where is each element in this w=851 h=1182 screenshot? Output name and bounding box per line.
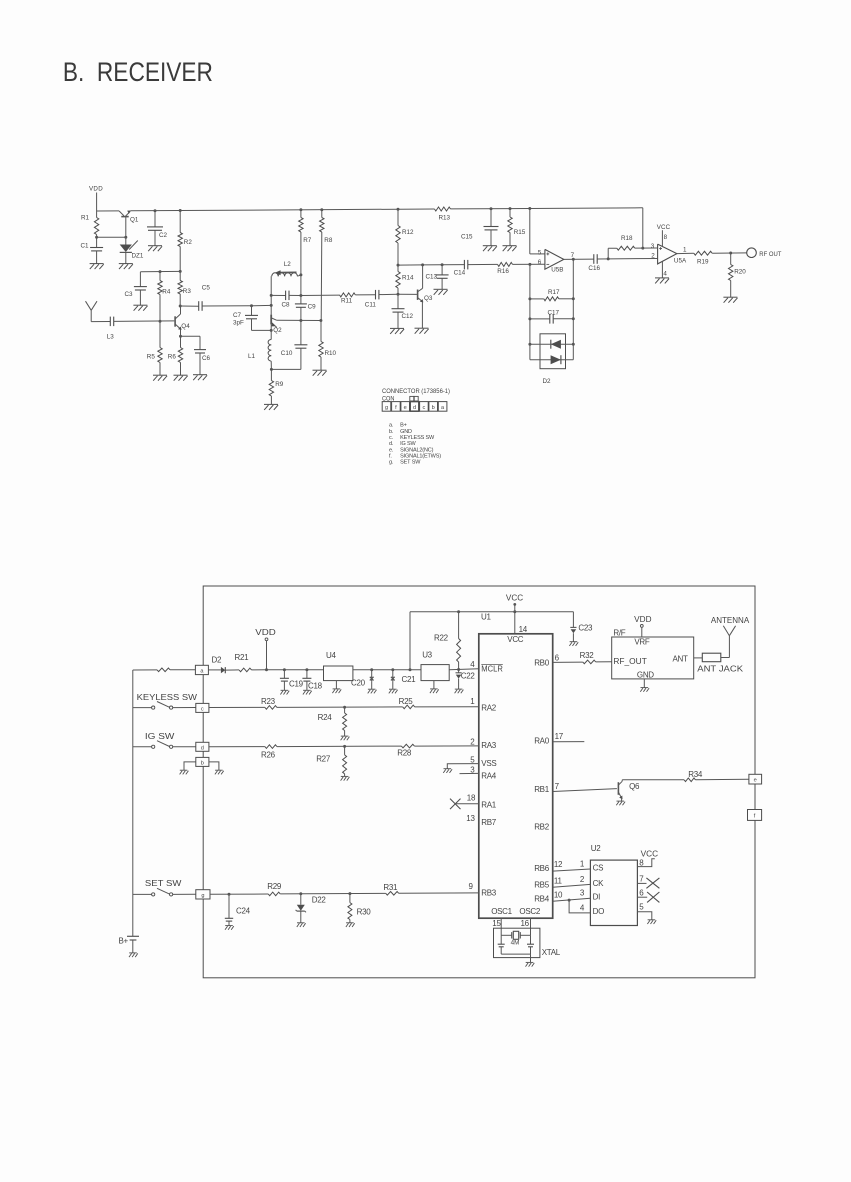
svg-text:R31: R31 xyxy=(383,883,398,892)
wire U2 pin8 to VCC xyxy=(637,859,654,867)
wire C7 node to Q2 xyxy=(252,304,272,306)
svg-text:C6: C6 xyxy=(202,355,211,362)
svg-text:C21: C21 xyxy=(402,675,417,684)
resistor R3 xyxy=(178,271,182,306)
node R30 junction xyxy=(348,892,351,895)
connector pin boxes g-a xyxy=(382,402,447,412)
svg-text:6: 6 xyxy=(639,888,644,897)
node Q2 emitter junction xyxy=(270,329,273,332)
wire box b right hook xyxy=(209,762,219,770)
ground under C2 xyxy=(148,246,162,252)
svg-text:R27: R27 xyxy=(316,754,331,763)
svg-text:f: f xyxy=(395,405,397,411)
wire feedback left rail xyxy=(529,264,531,359)
connector box g xyxy=(196,890,210,899)
svg-text:8: 8 xyxy=(639,858,644,867)
antenna symbol (bottom) xyxy=(723,626,735,636)
svg-text:C7: C7 xyxy=(233,312,242,319)
capacitor XTAL right load xyxy=(527,935,534,954)
wire osc line Q3 to C13 xyxy=(423,264,443,266)
ground under R5 xyxy=(153,375,167,381)
label R9 xyxy=(275,381,284,388)
svg-text:R22: R22 xyxy=(434,633,449,642)
svg-text:C20: C20 xyxy=(351,679,366,688)
svg-text:g: g xyxy=(201,893,204,899)
capacitor C17 xyxy=(550,314,553,324)
svg-text:C13: C13 xyxy=(426,274,438,281)
ground under R30 xyxy=(346,923,355,927)
svg-text:KEYLESS SW: KEYLESS SW xyxy=(400,435,435,441)
node R22-C22 junction xyxy=(457,668,460,671)
svg-text:R7: R7 xyxy=(303,237,312,244)
label U5A pin 1 xyxy=(683,246,687,253)
label DO inside xyxy=(593,907,604,916)
ground U2 pin5 xyxy=(647,920,656,924)
resistor R12 xyxy=(396,209,400,265)
capacitor C3 xyxy=(134,272,147,305)
label D22 xyxy=(312,895,327,904)
svg-text:b: b xyxy=(201,761,204,767)
svg-text:IG SW: IG SW xyxy=(400,441,416,447)
ground under C24 xyxy=(225,926,234,930)
resistor R2 xyxy=(178,211,182,272)
svg-text:14: 14 xyxy=(519,625,528,634)
wire RA3 row right xyxy=(414,745,478,747)
label C7 value 3pF xyxy=(233,320,244,327)
wire C11 to R14 node xyxy=(379,293,398,295)
wire RB5 to CK xyxy=(553,884,591,887)
wire C17 row left xyxy=(530,318,550,320)
svg-text:D22: D22 xyxy=(312,895,327,904)
svg-text:B. RECEIVER: B. RECEIVER xyxy=(63,57,213,87)
ground under R9 xyxy=(264,404,278,410)
label RF_OUT inside xyxy=(613,657,647,666)
wire emitter to C6 xyxy=(181,335,201,337)
label R7 xyxy=(303,237,312,244)
regulator U4 xyxy=(324,666,353,689)
capacitor C13 xyxy=(436,265,449,290)
svg-text:R18: R18 xyxy=(621,235,633,242)
label U1 pin 13 xyxy=(466,814,475,823)
node R24 junction xyxy=(343,706,346,709)
svg-text:a: a xyxy=(441,405,445,411)
node rail-C2 junction xyxy=(154,209,157,212)
label B+ xyxy=(119,937,129,946)
capacitor C18 xyxy=(302,670,311,691)
resistor R21 xyxy=(234,668,267,672)
node left rail D2 junction xyxy=(528,343,531,346)
capacitor C1 xyxy=(90,237,103,263)
svg-text:KEYLESS SW: KEYLESS SW xyxy=(137,693,198,702)
label R8 xyxy=(324,237,333,244)
wire osc line R12 to Q3 xyxy=(398,264,423,266)
label U5A pin 2 xyxy=(651,252,655,259)
label C24 xyxy=(236,906,251,915)
wire U5B output xyxy=(564,258,594,260)
label R/F xyxy=(613,629,625,638)
svg-text:4: 4 xyxy=(663,271,667,278)
label U2 pin 4 xyxy=(580,903,585,912)
svg-text:OSC1: OSC1 xyxy=(491,907,512,916)
label R10 xyxy=(325,350,337,357)
wire Q2 collector line xyxy=(277,319,321,321)
wire C10 bottom to L1 xyxy=(271,368,301,370)
svg-text:R4: R4 xyxy=(162,288,171,295)
wire osc line C13 to C14 xyxy=(442,264,464,266)
svg-text:RF_OUT: RF_OUT xyxy=(613,657,647,666)
power VCC label U5A xyxy=(657,224,671,231)
wire RA4 stub xyxy=(460,772,479,774)
wire OSC1 pin drop xyxy=(500,918,502,935)
svg-text:R9: R9 xyxy=(275,381,284,388)
svg-text:2: 2 xyxy=(651,252,655,259)
ground left of box b xyxy=(180,770,189,774)
svg-text:MCLR: MCLR xyxy=(481,664,503,673)
wire C5 to C7 node xyxy=(202,305,251,307)
node rail-R2 junction xyxy=(179,209,182,212)
svg-text:R14: R14 xyxy=(402,274,414,281)
label U4 xyxy=(326,651,336,660)
svg-text:16: 16 xyxy=(521,919,530,928)
svg-text:C3: C3 xyxy=(125,291,134,298)
node R27 junction xyxy=(343,745,346,748)
svg-text:XTAL: XTAL xyxy=(542,948,561,957)
svg-text:RB4: RB4 xyxy=(534,895,550,904)
svg-text:B+: B+ xyxy=(400,423,407,429)
label U1 pin 17 xyxy=(555,732,564,741)
capacitor L3 (series element) xyxy=(110,317,113,327)
connector box d xyxy=(196,742,209,751)
label R29 xyxy=(267,882,282,891)
svg-text:RB7: RB7 xyxy=(481,818,497,827)
power VDD label (top left) xyxy=(89,186,103,193)
label D2 xyxy=(543,378,552,385)
wire RA2 row right xyxy=(415,706,479,708)
label C10 xyxy=(281,350,293,357)
svg-text:VDD: VDD xyxy=(255,628,276,637)
label ANT JACK xyxy=(697,664,743,673)
wire R11 to C11 xyxy=(355,294,375,296)
wire U2 pin7 stub xyxy=(637,882,646,884)
svg-text:10: 10 xyxy=(554,891,563,900)
arrow over L2 xyxy=(275,270,297,275)
label U1 pin 4 xyxy=(470,660,475,669)
svg-text:g: g xyxy=(385,405,388,411)
wire RB4 to DI xyxy=(553,898,591,901)
resistor R27 xyxy=(343,746,347,776)
svg-text:RF OUT: RF OUT xyxy=(759,251,781,258)
node rail-R8 junction xyxy=(320,208,323,211)
ground right of box b xyxy=(215,770,224,774)
label L1 xyxy=(248,353,256,360)
resistor R15 xyxy=(508,209,512,246)
svg-text:RB1: RB1 xyxy=(534,785,550,794)
diode D2 upper (pointing left) xyxy=(551,340,561,349)
svg-text:C18: C18 xyxy=(308,682,323,691)
resistor R26 xyxy=(265,745,277,749)
label C19 xyxy=(289,680,304,689)
capacitor C6 xyxy=(194,336,206,375)
svg-text:R26: R26 xyxy=(261,750,276,759)
node C7 junction xyxy=(250,304,253,307)
label GND inside xyxy=(637,671,654,680)
label RF OUT xyxy=(759,251,781,258)
wire Q1 base to R1 junction xyxy=(97,236,126,238)
zener diode DZ1 xyxy=(120,237,138,263)
label R15 xyxy=(514,229,526,236)
label U1 pin 6 xyxy=(555,654,560,663)
wire Q6 collector to R34 xyxy=(622,779,684,781)
svg-text:C23: C23 xyxy=(578,624,593,633)
svg-text:CK: CK xyxy=(593,879,604,888)
label ANTENNA xyxy=(711,616,750,625)
label C6 xyxy=(202,355,211,362)
inductor L1 xyxy=(268,330,271,369)
svg-text:1: 1 xyxy=(580,860,585,869)
svg-text:3pF: 3pF xyxy=(233,320,244,327)
svg-text:Q4: Q4 xyxy=(181,323,190,330)
label U2 pin 8 xyxy=(639,858,644,867)
svg-text:C17: C17 xyxy=(548,310,560,317)
svg-text:L3: L3 xyxy=(107,333,115,340)
ground under C19 xyxy=(280,690,289,694)
switch SET xyxy=(133,888,196,896)
label CONNECTOR (173856-1) xyxy=(382,388,450,395)
label C5 xyxy=(202,284,211,291)
capacitor C8 xyxy=(271,291,301,301)
capacitor C15 xyxy=(484,209,499,246)
label C17 xyxy=(548,310,560,317)
wire C7 bypass corner xyxy=(252,329,272,331)
wire base line to Q4 xyxy=(114,320,175,323)
node VCC riser junction xyxy=(409,668,412,671)
svg-text:e: e xyxy=(754,777,757,783)
svg-text:SET SW: SET SW xyxy=(400,460,421,466)
node left rail R17 junction xyxy=(528,297,531,300)
resistor R8 xyxy=(320,210,324,321)
wire R32 to RF module xyxy=(596,661,612,663)
wire C21 to U3 xyxy=(393,669,421,671)
label R12 xyxy=(402,229,414,236)
svg-text:ANT JACK: ANT JACK xyxy=(697,664,743,673)
ground under C20 xyxy=(368,689,377,693)
component ANT JACK xyxy=(702,653,721,662)
svg-text:6: 6 xyxy=(555,654,560,663)
label U1 pin 9 xyxy=(469,882,474,891)
svg-text:R29: R29 xyxy=(267,882,282,891)
svg-text:C10: C10 xyxy=(281,350,293,357)
label R27 xyxy=(316,754,331,763)
svg-text:R21: R21 xyxy=(235,653,250,662)
svg-text:C19: C19 xyxy=(289,680,304,689)
svg-text:9: 9 xyxy=(469,882,474,891)
label IG SW xyxy=(145,732,175,741)
node R22 top junction xyxy=(457,610,460,613)
marker above pin d xyxy=(410,396,418,401)
svg-text:3: 3 xyxy=(651,243,655,250)
wire B+ feed line xyxy=(133,669,157,671)
capacitor C14 xyxy=(464,260,467,270)
label U1 pin 3 xyxy=(470,766,475,775)
svg-text:R19: R19 xyxy=(697,259,709,266)
svg-text:a.: a. xyxy=(389,423,394,429)
label R6 xyxy=(168,354,177,361)
node Q2-C8 junction xyxy=(270,294,273,297)
resistor R5 xyxy=(158,321,162,375)
label OSC1 inside xyxy=(491,907,512,916)
label U5A pin 8 xyxy=(664,234,668,241)
wire RB6 to CS xyxy=(553,869,591,871)
rf module box xyxy=(612,637,694,679)
svg-text:Q6: Q6 xyxy=(629,782,640,791)
svg-text:18: 18 xyxy=(467,794,476,803)
ground under XTAL xyxy=(526,962,535,966)
svg-text:R3: R3 xyxy=(183,288,192,295)
label U1 pin 1 xyxy=(470,697,475,706)
wire C17 row right xyxy=(553,318,573,320)
svg-text:CS: CS xyxy=(593,864,604,873)
label R18 xyxy=(621,235,633,242)
label R2 xyxy=(184,239,193,246)
label R32 xyxy=(580,651,595,660)
svg-text:R13: R13 xyxy=(439,214,451,221)
terminal RF OUT xyxy=(747,248,757,258)
ground under C1 xyxy=(90,264,104,270)
svg-text:e.: e. xyxy=(389,447,394,453)
microcontroller U1 box xyxy=(479,634,553,918)
node R2 bottom junction xyxy=(179,270,182,273)
svg-text:R24: R24 xyxy=(318,713,333,722)
svg-text:C1: C1 xyxy=(81,243,90,250)
op-amp U5B xyxy=(545,249,564,269)
connector box f xyxy=(748,810,762,821)
wire C14 to R16 xyxy=(468,263,498,265)
svg-text:C9: C9 xyxy=(308,303,317,310)
ground under U4 xyxy=(332,689,341,693)
svg-text:U4: U4 xyxy=(326,651,336,660)
resistor R14 xyxy=(396,265,400,294)
svg-text:L2: L2 xyxy=(284,261,292,268)
label RB5 inside xyxy=(534,880,550,889)
node C20 tap junction xyxy=(370,668,373,671)
label C9 xyxy=(308,303,317,310)
svg-text:U5B: U5B xyxy=(551,266,563,273)
resistor R18 xyxy=(608,246,657,259)
label CON xyxy=(382,396,395,403)
node rail to pin5 junction xyxy=(528,207,531,210)
label RB6 inside xyxy=(534,864,550,873)
label U5A xyxy=(674,258,687,265)
svg-text:4: 4 xyxy=(580,903,585,912)
node right rail R17 junction xyxy=(572,297,575,300)
node R3 bottom junction xyxy=(179,305,182,308)
svg-text:R8: R8 xyxy=(324,237,333,244)
svg-text:b.: b. xyxy=(389,429,394,435)
label U2 pin 5 xyxy=(639,903,644,912)
label U2 xyxy=(591,844,601,853)
label Q6 xyxy=(629,782,640,791)
svg-text:4M: 4M xyxy=(511,940,520,947)
wire VDD rail left segment xyxy=(97,210,119,212)
label RA0 inside xyxy=(534,737,550,746)
label U3 xyxy=(422,650,432,659)
label R31 xyxy=(383,883,398,892)
label U5A pin 3 xyxy=(651,243,655,250)
wire antenna line xyxy=(91,321,110,323)
label R14 xyxy=(402,274,414,281)
svg-text:5: 5 xyxy=(538,249,542,256)
ground under U5A xyxy=(655,278,669,284)
svg-text:C5: C5 xyxy=(202,284,211,291)
node right rail C17 junction xyxy=(572,317,575,320)
wire rail down to pin3 xyxy=(642,208,644,248)
label U1 pin 2 xyxy=(470,737,475,746)
svg-text:8: 8 xyxy=(664,234,668,241)
ground under C6 xyxy=(193,375,207,381)
no-connect X pin7 xyxy=(646,878,659,888)
resistor R34 xyxy=(684,778,695,782)
resistor R7 xyxy=(299,210,303,275)
node Q3 collector junction xyxy=(421,263,424,266)
resistor R20 xyxy=(729,253,733,297)
svg-text:ANT: ANT xyxy=(673,655,689,664)
label RB0 inside xyxy=(534,658,550,667)
title B. RECEIVER xyxy=(63,57,213,87)
zener diode D22 xyxy=(296,894,306,923)
label Q2 xyxy=(273,327,282,334)
wire VDD rail right segment xyxy=(451,208,643,209)
capacitor C5 xyxy=(199,301,202,311)
resistor R25 xyxy=(403,705,415,709)
wire RB3 row right xyxy=(399,892,479,894)
node rail-R15 junction xyxy=(509,207,512,210)
resistor R24 xyxy=(343,707,347,736)
ground under C18 xyxy=(303,690,312,694)
svg-text:C15: C15 xyxy=(461,233,473,240)
wire RF GND stub xyxy=(643,679,645,688)
svg-text:7: 7 xyxy=(571,252,575,259)
capacitor C20 (tant) xyxy=(370,670,374,689)
node U5B output junction xyxy=(572,258,575,261)
svg-text:R16: R16 xyxy=(497,268,509,275)
label U1 pin 14 xyxy=(519,625,528,634)
wire VCC to pin8 xyxy=(661,230,663,246)
svg-text:6: 6 xyxy=(538,259,542,266)
svg-text:1: 1 xyxy=(470,697,475,706)
label C23 xyxy=(578,624,593,633)
svg-text:R17: R17 xyxy=(548,289,560,296)
ground under R27 xyxy=(341,776,350,780)
node D22 junction xyxy=(299,892,302,895)
label RA3 inside xyxy=(481,741,497,750)
ground VSS xyxy=(443,769,452,773)
node R18 tap junction xyxy=(607,257,610,260)
label RA1 inside xyxy=(481,800,497,809)
label RA4 inside xyxy=(481,771,497,780)
svg-text:VRF: VRF xyxy=(634,637,650,646)
label U2 pin 2 xyxy=(580,875,585,884)
regulator U3 xyxy=(421,665,449,689)
svg-text:f.: f. xyxy=(389,453,392,459)
svg-text:R28: R28 xyxy=(397,748,412,757)
label 4M xyxy=(511,940,520,947)
svg-text:13: 13 xyxy=(466,814,475,823)
label L2 xyxy=(284,261,292,268)
label RB4 inside xyxy=(534,895,550,904)
node Q4 emitter junction xyxy=(179,335,182,338)
label U1 VCC inside xyxy=(507,635,524,644)
capacitor C2 xyxy=(147,211,163,246)
